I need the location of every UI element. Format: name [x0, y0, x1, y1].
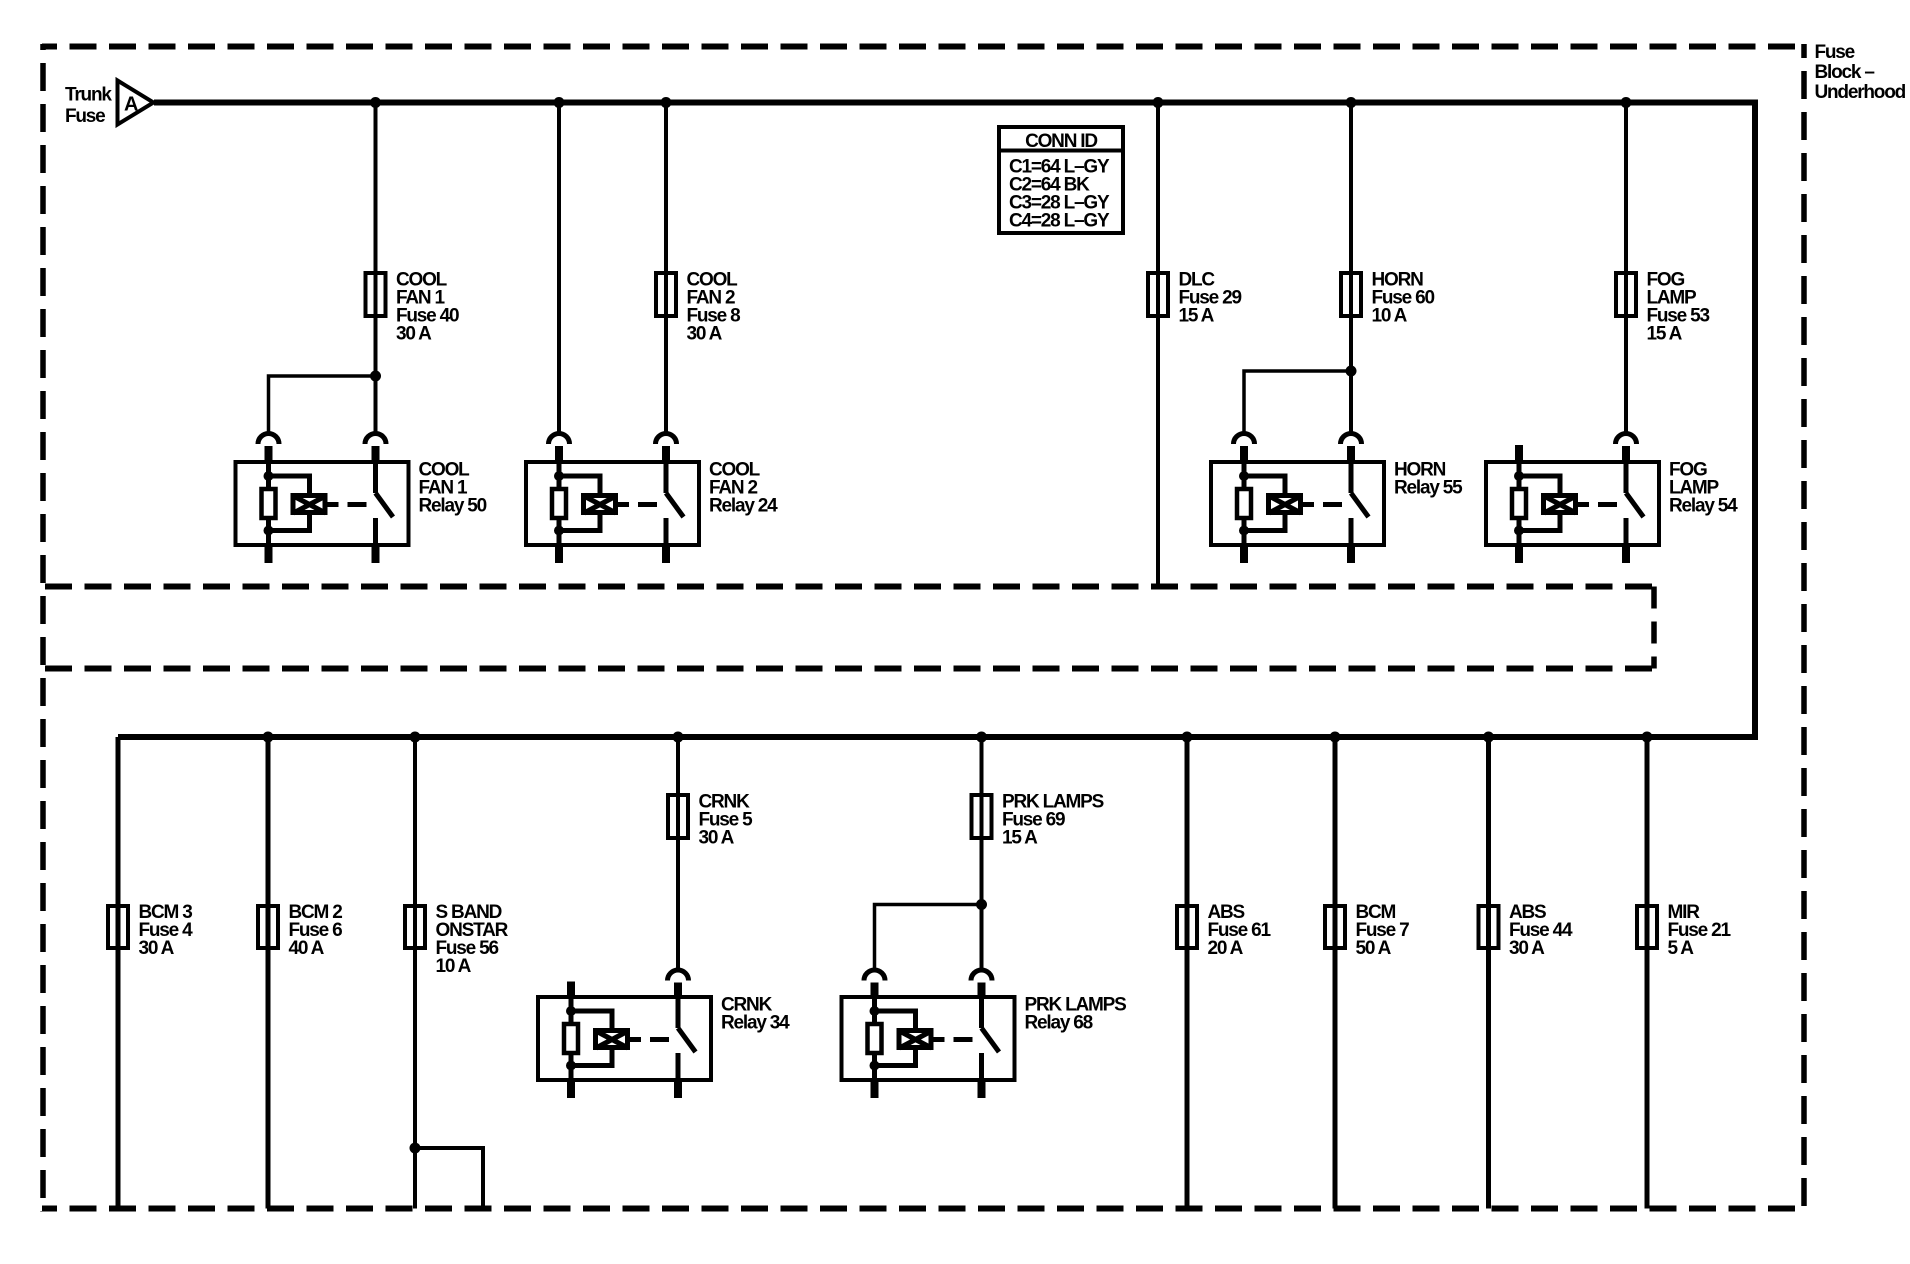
relay FOG LAMP Relay 54: actuator stub: [1578, 502, 1589, 507]
relay PRK LAMPS Relay 68: suppression resistor: [868, 1024, 882, 1053]
wire: lower bus to ABS Fuse 61 output: [1185, 737, 1190, 1209]
node: bus tap COOL FAN 2 fuse: [661, 97, 672, 108]
relay: HORN Relay 55: [1211, 434, 1384, 564]
relay PRK LAMPS Relay 68: case: [842, 997, 1015, 1080]
wire: lower bus to MIR Fuse 21 output: [1645, 737, 1650, 1209]
fuse: PRK LAMPS Fuse 69 15 A: [972, 793, 992, 840]
relay COOL FAN 2 Relay 24: actuator stub: [618, 502, 629, 507]
fuse: DLC Fuse 29 15 A: [1148, 271, 1168, 318]
relay FOG LAMP Relay 54: switch contact (bottom): [1624, 518, 1629, 545]
relay HORN Relay 55: node coil top junction: [1239, 471, 1249, 481]
relay COOL FAN 1 Relay 50: actuator dashed link: [348, 502, 367, 507]
fuse: S BAND ONSTAR Fuse 56 10 A: [405, 906, 425, 948]
svg-text:Relay 55: Relay 55: [1394, 478, 1463, 499]
svg-text:30 A: 30 A: [1509, 938, 1545, 959]
fuse: FOG LAMP Fuse 53 15 A: [1616, 271, 1636, 318]
svg-text:40 A: 40 A: [289, 938, 325, 959]
CONN ID table: [999, 127, 1123, 233]
svg-text:Fuse: Fuse: [1815, 42, 1855, 63]
svg-text:Relay 24: Relay 24: [709, 496, 778, 517]
label: FOG LAMP Relay 54: [1669, 460, 1738, 517]
relay HORN Relay 55: node coil bottom junction: [1239, 526, 1249, 536]
svg-text:Block –: Block –: [1815, 62, 1875, 83]
label: BCM 3 Fuse 4 30 A: [139, 902, 194, 959]
label: CRNK Relay 34: [721, 995, 790, 1034]
wire: bus to COOL FAN 1 fuse: [374, 103, 378, 276]
relay PRK LAMPS Relay 68: switch pin connector half-circle: [971, 970, 992, 997]
node: lower bus tap CRNK: [673, 732, 684, 743]
relay CRNK Relay 34: actuator dashed link: [650, 1037, 669, 1042]
relay COOL FAN 2 Relay 24: wire resistor top to coil: [559, 476, 600, 494]
relay COOL FAN 2 Relay 24: case: [526, 462, 699, 545]
wire: right-hand feed riser to lower section: [1752, 100, 1758, 741]
relay PRK LAMPS Relay 68: coil feed wire: [872, 997, 877, 1022]
relay COOL FAN 1 Relay 50: coil pin connector half-circle: [258, 434, 279, 463]
relay: CRNK Relay 34: [538, 970, 711, 1098]
label: FOG LAMP Fuse 53 15 A: [1647, 270, 1710, 345]
relay PRK LAMPS Relay 68: coil (winding box with X): [899, 1031, 932, 1049]
label: Trunk Fuse: [65, 85, 112, 128]
relay CRNK Relay 34: actuator stub: [630, 1037, 641, 1042]
wire: lower bus to BCM 2 output: [266, 737, 271, 1209]
node: HORN coil branch junction: [1346, 366, 1357, 377]
relay PRK LAMPS Relay 68: coil pin connector half-circle: [864, 970, 885, 997]
node: lower bus tap PRK LAMPS: [976, 732, 987, 743]
relay HORN Relay 55: suppression resistor: [1237, 489, 1251, 518]
relay FOG LAMP Relay 54: case: [1486, 462, 1659, 545]
label: COOL FAN 2 Relay 24: [709, 460, 778, 517]
relay COOL FAN 1 Relay 50: actuator stub: [328, 502, 339, 507]
node: bus tap HORN: [1346, 97, 1357, 108]
relay COOL FAN 2 Relay 24: coil feed wire: [557, 462, 562, 487]
svg-text:Trunk: Trunk: [65, 85, 112, 106]
label: S BAND ONSTAR Fuse 56 10 A: [436, 902, 509, 977]
wire: PRK LAMPS fuse to relay switch: [980, 840, 984, 969]
node: lower bus tap ABS Fuse 61: [1182, 732, 1193, 743]
svg-text:C4=28 L–GY: C4=28 L–GY: [1009, 211, 1110, 232]
relay HORN Relay 55: wire resistor top to coil: [1244, 476, 1285, 494]
fuse: ABS Fuse 44 30 A: [1479, 906, 1499, 948]
relay CRNK Relay 34: wire resistor bottom to coil: [571, 1050, 612, 1066]
fuse: COOL FAN 2 Fuse 8 30 A: [656, 271, 676, 318]
relay HORN Relay 55: switch fixed contact (top): [1349, 462, 1354, 493]
relay COOL FAN 1 Relay 50: node coil bottom junction: [264, 526, 274, 536]
relay: FOG LAMP Relay 54: [1486, 434, 1659, 564]
relay FOG LAMP Relay 54: coil feed wire: [1517, 462, 1522, 487]
node: COOL FAN 1 coil branch junction: [370, 371, 381, 382]
fuse: MIR Fuse 21 5 A: [1637, 906, 1657, 948]
relay FOG LAMP Relay 54: switch fixed contact (top): [1624, 462, 1629, 493]
node: lower bus tap S BAND ONSTAR: [410, 732, 421, 743]
fuse: HORN Fuse 60 10 A: [1341, 271, 1361, 318]
relay CRNK Relay 34: node coil top junction: [566, 1006, 576, 1016]
svg-text:50 A: 50 A: [1356, 938, 1392, 959]
relay HORN Relay 55: switch blade: [1351, 493, 1369, 517]
relay PRK LAMPS Relay 68: node coil bottom junction: [870, 1061, 880, 1071]
relay FOG LAMP Relay 54: switch blade: [1626, 493, 1644, 517]
relay HORN Relay 55: wire resistor bottom to coil: [1244, 515, 1285, 531]
relay CRNK Relay 34: coil pin stub: [567, 982, 575, 998]
svg-text:20 A: 20 A: [1208, 938, 1244, 959]
svg-text:15 A: 15 A: [1647, 324, 1683, 345]
wire: lower bus to BCM 3 output: [116, 737, 121, 1209]
relay HORN Relay 55: switch output pin: [1347, 543, 1355, 563]
relay HORN Relay 55: actuator stub: [1303, 502, 1314, 507]
node: bus tap COOL FAN 2 relay coil: [554, 97, 565, 108]
label: CRNK Fuse 5 30 A: [699, 792, 754, 849]
svg-text:Relay 50: Relay 50: [419, 496, 487, 517]
svg-text:15 A: 15 A: [1179, 306, 1215, 327]
svg-text:Fuse: Fuse: [65, 106, 105, 127]
label: COOL FAN 2 Fuse 8 30 A: [687, 270, 741, 345]
relay COOL FAN 1 Relay 50: switch blade: [376, 493, 394, 517]
relay PRK LAMPS Relay 68: wire resistor top to coil: [875, 1011, 916, 1029]
wire: bus to COOL FAN 2 fuse: [664, 103, 668, 276]
fuse: BCM 2 Fuse 6 40 A: [258, 906, 278, 948]
relay PRK LAMPS Relay 68: coil output pin: [871, 1078, 879, 1098]
node: lower bus tap BCM Fuse 7: [1330, 732, 1341, 743]
relay COOL FAN 1 Relay 50: switch output pin: [372, 543, 380, 563]
relay COOL FAN 2 Relay 24: node coil bottom junction: [554, 526, 564, 536]
wire: HORN fuse to relay switch: [1349, 318, 1353, 432]
relay FOG LAMP Relay 54: coil output pin: [1515, 543, 1523, 563]
relay HORN Relay 55: coil pin connector half-circle: [1234, 434, 1255, 463]
fuse block boundary: internal notch between upper and lower sections: [45, 587, 1654, 669]
wire: bus to COOL FAN 2 relay coil: [557, 103, 561, 433]
relay COOL FAN 1 Relay 50: coil return wire: [266, 520, 271, 545]
wire: S BAND ONSTAR second output branch: [415, 1148, 483, 1209]
relay CRNK Relay 34: wire resistor top to coil: [571, 1011, 612, 1029]
fuse: COOL FAN 1 Fuse 40 30 A: [366, 271, 386, 318]
wire: lower bus to ABS Fuse 44 output: [1486, 737, 1491, 1209]
svg-text:Relay 34: Relay 34: [721, 1013, 790, 1034]
label: ABS Fuse 61 20 A: [1208, 902, 1272, 959]
fuse: CRNK Fuse 5 30 A: [668, 793, 688, 840]
relay CRNK Relay 34: coil (winding box with X): [596, 1031, 629, 1049]
relay FOG LAMP Relay 54: switch pin connector half-circle: [1616, 434, 1637, 463]
svg-text:10 A: 10 A: [1372, 306, 1408, 327]
relay COOL FAN 2 Relay 24: wire resistor bottom to coil: [559, 515, 600, 531]
wire: COOL FAN 2 fuse to relay switch: [664, 318, 668, 432]
relay COOL FAN 1 Relay 50: coil feed wire: [266, 462, 271, 487]
wire: branch to PRK LAMPS relay coil: [875, 905, 982, 969]
relay FOG LAMP Relay 54: node coil bottom junction: [1514, 526, 1524, 536]
relay HORN Relay 55: actuator dashed link: [1323, 502, 1342, 507]
relay PRK LAMPS Relay 68: actuator dashed link: [954, 1037, 973, 1042]
node: S BAND ONSTAR branch junction: [410, 1143, 421, 1154]
label: HORN Fuse 60 10 A: [1372, 270, 1435, 327]
relay COOL FAN 2 Relay 24: coil pin connector half-circle: [549, 434, 570, 463]
relay FOG LAMP Relay 54: suppression resistor: [1512, 489, 1526, 518]
label: DLC Fuse 29 15 A: [1179, 270, 1242, 327]
node: lower bus tap MIR Fuse 21: [1642, 732, 1653, 743]
svg-text:Underhood: Underhood: [1815, 82, 1906, 103]
svg-text:30 A: 30 A: [396, 324, 432, 345]
relay CRNK Relay 34: coil return wire: [569, 1055, 574, 1080]
label: MIR Fuse 21 5 A: [1668, 902, 1732, 959]
wire: branch to COOL FAN 1 relay coil: [269, 376, 376, 432]
label: BCM Fuse 7 50 A: [1356, 902, 1410, 959]
node: lower bus tap BCM 2: [263, 732, 274, 743]
relay COOL FAN 1 Relay 50: coil output pin: [265, 543, 273, 563]
relay CRNK Relay 34: suppression resistor: [564, 1024, 578, 1053]
relay COOL FAN 1 Relay 50: suppression resistor: [262, 489, 276, 518]
relay FOG LAMP Relay 54: wire resistor bottom to coil: [1519, 515, 1560, 531]
relay PRK LAMPS Relay 68: switch fixed contact (top): [979, 997, 984, 1028]
svg-text:10 A: 10 A: [436, 956, 472, 977]
relay HORN Relay 55: coil feed wire: [1242, 462, 1247, 487]
relay CRNK Relay 34: switch contact (bottom): [676, 1053, 681, 1080]
node: PRK LAMPS coil branch junction: [976, 899, 987, 910]
label: BCM 2 Fuse 6 40 A: [289, 902, 343, 959]
svg-text:30 A: 30 A: [699, 828, 735, 849]
relay CRNK Relay 34: switch fixed contact (top): [676, 997, 681, 1028]
wire: main feed bus from trunk fuse (top): [154, 100, 1758, 106]
fuse: ABS Fuse 61 20 A: [1177, 906, 1197, 948]
wire: lower bus to BCM Fuse 7 output: [1333, 737, 1338, 1209]
svg-text:30 A: 30 A: [139, 938, 175, 959]
wire: DLC fuse output to boundary: [1156, 318, 1160, 587]
relay FOG LAMP Relay 54: coil return wire: [1517, 520, 1522, 545]
wire: bus to FOG LAMP fuse: [1624, 103, 1628, 276]
relay COOL FAN 1 Relay 50: node coil top junction: [264, 471, 274, 481]
relay HORN Relay 55: coil return wire: [1242, 520, 1247, 545]
fuse: BCM 3 Fuse 4 30 A: [108, 906, 128, 948]
relay COOL FAN 1 Relay 50: switch contact (bottom): [373, 518, 378, 545]
fuse: BCM Fuse 7 50 A: [1325, 906, 1345, 948]
relay COOL FAN 1 Relay 50: switch pin connector half-circle: [365, 434, 386, 463]
relay HORN Relay 55: coil output pin: [1240, 543, 1248, 563]
relay COOL FAN 2 Relay 24: switch output pin: [662, 543, 670, 563]
relay FOG LAMP Relay 54: wire resistor top to coil: [1519, 476, 1560, 494]
node: bus tap COOL FAN 1: [370, 97, 381, 108]
relay PRK LAMPS Relay 68: switch output pin: [978, 1078, 986, 1098]
relay HORN Relay 55: coil (winding box with X): [1269, 496, 1302, 514]
svg-text:CONN ID: CONN ID: [1025, 131, 1097, 152]
wire: COOL FAN 1 fuse to relay switch: [374, 318, 378, 432]
relay CRNK Relay 34: switch blade: [678, 1028, 696, 1052]
relay FOG LAMP Relay 54: coil (winding box with X): [1544, 496, 1577, 514]
relay COOL FAN 1 Relay 50: case: [236, 462, 409, 545]
relay FOG LAMP Relay 54: node coil top junction: [1514, 471, 1524, 481]
relay PRK LAMPS Relay 68: wire resistor bottom to coil: [875, 1050, 916, 1066]
wire: lower bus to S BAND ONSTAR output: [413, 737, 417, 1209]
label: Fuse Block - Underhood: [1815, 42, 1906, 103]
label: HORN Relay 55: [1394, 460, 1463, 499]
relay FOG LAMP Relay 54: actuator dashed link: [1598, 502, 1617, 507]
relay COOL FAN 2 Relay 24: switch fixed contact (top): [664, 462, 669, 493]
wire: bus to DLC fuse: [1156, 103, 1160, 276]
relay FOG LAMP Relay 54: coil pin stub: [1515, 445, 1523, 462]
wire: FOG LAMP fuse to relay switch: [1624, 318, 1628, 432]
relay COOL FAN 2 Relay 24: switch contact (bottom): [664, 518, 669, 545]
relay COOL FAN 1 Relay 50: wire resistor bottom to coil: [269, 515, 310, 531]
wire: branch to HORN relay coil: [1244, 371, 1351, 432]
relay PRK LAMPS Relay 68: switch contact (bottom): [979, 1053, 984, 1080]
relay CRNK Relay 34: coil feed wire: [569, 997, 574, 1022]
relay COOL FAN 1 Relay 50: wire resistor top to coil: [269, 476, 310, 494]
relay COOL FAN 1 Relay 50: coil (winding box with X): [293, 496, 326, 514]
relay COOL FAN 2 Relay 24: switch pin connector half-circle: [656, 434, 677, 463]
svg-text:5 A: 5 A: [1668, 938, 1695, 959]
wire: lower bus to PRK LAMPS fuse: [980, 737, 984, 797]
relay HORN Relay 55: switch pin connector half-circle: [1341, 434, 1362, 463]
wire: lower bus to CRNK fuse: [676, 737, 680, 797]
relay: COOL FAN 2 Relay 24: [526, 434, 699, 564]
relay CRNK Relay 34: node coil bottom junction: [566, 1061, 576, 1071]
svg-text:Relay 54: Relay 54: [1669, 496, 1738, 517]
relay FOG LAMP Relay 54: switch output pin: [1622, 543, 1630, 563]
relay PRK LAMPS Relay 68: node coil top junction: [870, 1006, 880, 1016]
wire: bus to HORN fuse: [1349, 103, 1353, 276]
relay COOL FAN 2 Relay 24: node coil top junction: [554, 471, 564, 481]
svg-text:30 A: 30 A: [687, 324, 723, 345]
node: bus tap DLC: [1153, 97, 1164, 108]
label: PRK LAMPS Relay 68: [1025, 995, 1127, 1034]
label: COOL FAN 1 Fuse 40 30 A: [396, 270, 459, 345]
relay PRK LAMPS Relay 68: actuator stub: [934, 1037, 945, 1042]
relay COOL FAN 2 Relay 24: suppression resistor: [552, 489, 566, 518]
relay CRNK Relay 34: switch output pin: [674, 1078, 682, 1098]
wire: CRNK fuse to relay switch: [676, 840, 680, 969]
relay COOL FAN 2 Relay 24: coil (winding box with X): [584, 496, 617, 514]
label: COOL FAN 1 Relay 50: [419, 460, 487, 517]
svg-text:15 A: 15 A: [1002, 828, 1038, 849]
relay COOL FAN 2 Relay 24: coil output pin: [555, 543, 563, 563]
relay COOL FAN 1 Relay 50: switch fixed contact (top): [373, 462, 378, 493]
relay COOL FAN 2 Relay 24: switch blade: [666, 493, 684, 517]
relay CRNK Relay 34: switch pin connector half-circle: [668, 970, 689, 997]
svg-text:A: A: [124, 94, 138, 116]
svg-text:Relay 68: Relay 68: [1025, 1013, 1093, 1034]
relay CRNK Relay 34: case: [538, 997, 711, 1080]
wire: lower section feed bus: [118, 734, 1758, 740]
relay COOL FAN 2 Relay 24: coil return wire: [557, 520, 562, 545]
relay CRNK Relay 34: coil output pin: [567, 1078, 575, 1098]
relay: COOL FAN 1 Relay 50: [236, 434, 409, 564]
relay PRK LAMPS Relay 68: coil return wire: [872, 1055, 877, 1080]
relay: PRK LAMPS Relay 68: [842, 970, 1015, 1098]
node: bus tap FOG LAMP: [1621, 97, 1632, 108]
trunk fuse source arrow A: [118, 81, 154, 125]
node: lower bus tap ABS Fuse 44: [1483, 732, 1494, 743]
relay HORN Relay 55: case: [1211, 462, 1384, 545]
relay HORN Relay 55: switch contact (bottom): [1349, 518, 1354, 545]
label: PRK LAMPS Fuse 69 15 A: [1002, 792, 1104, 849]
relay COOL FAN 2 Relay 24: actuator dashed link: [638, 502, 657, 507]
relay PRK LAMPS Relay 68: switch blade: [982, 1028, 1000, 1052]
label: ABS Fuse 44 30 A: [1509, 902, 1573, 959]
